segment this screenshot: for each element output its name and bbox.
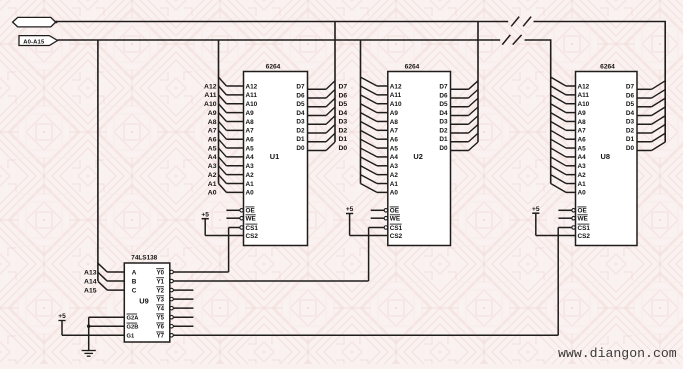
junction: G2B wire to ground rail <box>87 325 90 328</box>
U2 pin WE (active low, stub) <box>371 215 401 223</box>
svg-text:D6: D6 <box>626 92 635 99</box>
U9 pin Y0 wire to U1 CS1 <box>156 269 228 277</box>
svg-text:D5: D5 <box>626 101 635 108</box>
svg-text:A3: A3 <box>390 163 399 170</box>
svg-text:CS2: CS2 <box>246 233 259 240</box>
svg-text:A7: A7 <box>390 128 399 135</box>
U8 address pins A12-A0 with wires to address bus drop <box>551 77 590 197</box>
svg-text:G2A: G2A <box>127 316 140 322</box>
svg-text:D6: D6 <box>439 92 448 99</box>
svg-text:A3: A3 <box>578 163 587 170</box>
svg-text:A0-A15: A0-A15 <box>23 39 45 45</box>
svg-text:A11: A11 <box>246 92 258 99</box>
svg-text:+5: +5 <box>346 206 354 213</box>
svg-text:A9: A9 <box>390 110 399 117</box>
svg-text:A7: A7 <box>578 128 587 135</box>
svg-text:B: B <box>132 278 137 285</box>
svg-text:D1: D1 <box>296 136 305 143</box>
svg-text:D1: D1 <box>339 136 348 143</box>
wire: address bus vertical drop for U8 <box>0 0 1 1</box>
sram U8 (6264): chip body <box>576 64 638 246</box>
svg-text:www.diangon.com: www.diangon.com <box>558 346 677 361</box>
svg-text:A1: A1 <box>578 181 587 188</box>
svg-text:A5: A5 <box>578 145 587 152</box>
svg-text:A11: A11 <box>578 92 590 99</box>
U8 pin OE (active low, stub) <box>558 207 587 215</box>
svg-text:D3: D3 <box>296 119 305 126</box>
U8 pin WE (active low, stub) <box>558 215 588 223</box>
svg-text:Y3: Y3 <box>157 297 165 303</box>
svg-text:U9: U9 <box>139 297 148 306</box>
svg-text:D4: D4 <box>439 110 448 117</box>
svg-text:D6: D6 <box>296 92 305 99</box>
bus entry connector flag "A0-A15" (address bus) <box>19 36 58 46</box>
svg-text:CS1: CS1 <box>578 225 591 232</box>
svg-text:CS2: CS2 <box>578 233 591 240</box>
svg-text:A4: A4 <box>246 154 255 161</box>
wire: data bus vertical drop for U1 <box>334 22 336 142</box>
svg-text:D0: D0 <box>439 145 448 152</box>
svg-text:A8: A8 <box>246 119 255 126</box>
svg-text:A8: A8 <box>578 119 587 126</box>
U2 data pins D7-D0 with wires to data bus drop <box>439 81 478 152</box>
wire: address bus vertical drop for U1 <box>218 40 220 184</box>
svg-text:D2: D2 <box>339 127 348 134</box>
U9 pin Y6 stub <box>156 323 193 331</box>
svg-text:+5: +5 <box>58 313 66 320</box>
U9 pin G2B (active low) tied to ground <box>89 323 139 331</box>
svg-text:D4: D4 <box>339 110 348 117</box>
U9 pin Y4 stub <box>156 305 193 313</box>
svg-text:A2: A2 <box>390 172 399 179</box>
U1 pin WE (active low, stub) <box>226 215 256 223</box>
svg-text:D3: D3 <box>626 119 635 126</box>
svg-text:6264: 6264 <box>266 64 281 71</box>
svg-text:D2: D2 <box>439 127 448 134</box>
svg-text:C: C <box>132 287 137 294</box>
svg-text:A15: A15 <box>84 287 97 294</box>
wire: address bus vertical drop for U9 inputs <box>97 40 99 281</box>
svg-text:Y5: Y5 <box>157 316 165 322</box>
svg-text:A9: A9 <box>578 110 587 117</box>
svg-text:U2: U2 <box>413 152 422 161</box>
svg-text:A5: A5 <box>246 145 255 152</box>
svg-text:A10: A10 <box>390 101 402 108</box>
U8 data pins D7-D0 with wires to data bus drop <box>626 81 665 152</box>
svg-text:Y4: Y4 <box>157 306 165 312</box>
svg-text:A2: A2 <box>208 172 217 179</box>
power +5 symbol for U9 G1 <box>58 313 66 335</box>
svg-text:A6: A6 <box>390 136 399 143</box>
svg-text:D7: D7 <box>439 84 448 91</box>
svg-text:A8: A8 <box>390 119 399 126</box>
U8 pin CS1 wire to decoder output <box>558 224 590 335</box>
svg-text:A6: A6 <box>246 136 255 143</box>
svg-text:D7: D7 <box>339 84 348 91</box>
svg-text:A4: A4 <box>390 154 399 161</box>
power +5 symbol for U8 CS2 <box>532 206 540 213</box>
svg-text:D0: D0 <box>339 145 348 152</box>
svg-text:WE: WE <box>390 216 401 223</box>
ground symbol for U9 enables <box>82 317 96 356</box>
wire: data bus vertical drop for U2 <box>477 22 479 142</box>
U2 pin CS2 wire to +5 <box>350 214 403 240</box>
svg-text:A0: A0 <box>578 190 587 197</box>
U2 pin OE (active low, stub) <box>371 207 400 215</box>
svg-text:A4: A4 <box>208 154 217 161</box>
svg-text:A9: A9 <box>246 110 255 117</box>
svg-text:Y1: Y1 <box>157 279 165 285</box>
svg-text:A4: A4 <box>578 154 587 161</box>
svg-text:U1: U1 <box>270 152 279 161</box>
svg-text:A7: A7 <box>246 128 255 135</box>
bus entry connector (data bus, empty hexagon) <box>13 17 58 27</box>
svg-text:D7: D7 <box>626 84 635 91</box>
wire: address bus vertical drop for U2 <box>360 40 362 184</box>
svg-text:D0: D0 <box>626 145 635 152</box>
svg-text:6264: 6264 <box>600 64 615 71</box>
bus break marks on address bus <box>502 35 521 45</box>
svg-text:A12: A12 <box>578 83 590 90</box>
svg-text:A10: A10 <box>246 101 258 108</box>
svg-text:Y6: Y6 <box>157 325 165 331</box>
svg-text:A14: A14 <box>84 278 97 285</box>
U2 address pins A12-A0 with wires to address bus drop <box>361 77 402 197</box>
U2 pin CS1 wire to decoder output <box>369 224 403 281</box>
svg-text:WE: WE <box>578 216 589 223</box>
svg-text:A5: A5 <box>390 145 399 152</box>
wire: address bus horizontal (right span) with corner down to U8 address drop <box>525 40 551 184</box>
wire: data bus vertical drop for U8 <box>0 0 1 1</box>
svg-text:A12: A12 <box>204 83 217 90</box>
svg-text:U8: U8 <box>601 152 610 161</box>
svg-text:D3: D3 <box>339 119 348 126</box>
U1 pin OE (active low, stub) <box>226 207 255 215</box>
power +5 symbol for U2 CS2 <box>346 206 354 213</box>
U8 pin CS2 wire to +5 <box>536 213 591 240</box>
svg-text:A0: A0 <box>390 190 399 197</box>
U9 pin Y7 wire to U8 CS1 <box>156 332 558 340</box>
svg-text:A1: A1 <box>390 181 399 188</box>
svg-text:D5: D5 <box>439 101 448 108</box>
U9 pin Y2 stub <box>156 287 193 295</box>
svg-text:OE: OE <box>390 208 400 215</box>
svg-text:A13: A13 <box>84 269 97 276</box>
svg-text:A3: A3 <box>246 163 255 170</box>
svg-text:A11: A11 <box>204 92 216 99</box>
svg-text:A2: A2 <box>246 172 255 179</box>
svg-text:A5: A5 <box>208 145 217 152</box>
svg-text:+5: +5 <box>532 206 540 213</box>
U1 address pins A12-A0 with wires to address bus drop <box>204 77 258 197</box>
svg-text:A8: A8 <box>208 119 217 126</box>
U9 pin G1 tied to +5 <box>62 334 135 340</box>
svg-text:Y2: Y2 <box>157 288 165 294</box>
watermark www.diangon.com <box>558 346 677 361</box>
svg-text:D4: D4 <box>296 110 305 117</box>
svg-text:D2: D2 <box>296 127 305 134</box>
svg-text:A0: A0 <box>208 190 217 197</box>
svg-text:D7: D7 <box>296 84 305 91</box>
sram U1 (6264): chip body <box>244 64 308 246</box>
U1 pin CS2 wire to +5 <box>205 219 258 240</box>
svg-text:A9: A9 <box>208 110 217 117</box>
svg-text:OE: OE <box>246 208 256 215</box>
svg-text:CS1: CS1 <box>246 225 259 232</box>
power +5 symbol for U1 CS2 <box>201 211 209 218</box>
U1 pin CS1 wire to decoder output <box>229 224 259 272</box>
svg-text:D5: D5 <box>296 101 305 108</box>
svg-text:A: A <box>132 269 137 276</box>
svg-text:CS1: CS1 <box>390 225 403 232</box>
svg-text:A3: A3 <box>208 163 217 170</box>
svg-text:A2: A2 <box>578 172 587 179</box>
svg-text:D5: D5 <box>339 101 348 108</box>
svg-text:+5: +5 <box>201 211 209 218</box>
svg-text:D4: D4 <box>626 110 635 117</box>
svg-text:A0: A0 <box>246 190 255 197</box>
bus break marks on data bus <box>511 17 531 27</box>
wire: data bus horizontal (right span) with corner down to U8 data drop <box>534 22 666 143</box>
svg-text:6264: 6264 <box>405 64 420 71</box>
U9 pin G2A (active low) tied to ground <box>89 314 140 322</box>
svg-text:D1: D1 <box>439 136 448 143</box>
wire: address bus horizontal (left span) <box>58 39 501 41</box>
svg-text:G1: G1 <box>127 334 136 340</box>
svg-text:Y0: Y0 <box>157 270 165 276</box>
svg-text:WE: WE <box>246 216 257 223</box>
U1 data pins D7-D0 with wires to data bus drop <box>296 81 347 152</box>
svg-text:D3: D3 <box>439 119 448 126</box>
svg-text:D2: D2 <box>626 127 635 134</box>
svg-text:A12: A12 <box>246 83 258 90</box>
svg-text:G2B: G2B <box>127 325 139 331</box>
svg-text:A10: A10 <box>578 101 590 108</box>
U9 pin Y3 stub <box>156 296 193 304</box>
svg-text:Y7: Y7 <box>157 334 165 340</box>
sram U2 (6264): chip body <box>388 64 451 246</box>
svg-text:74LS138: 74LS138 <box>131 255 157 262</box>
svg-text:A11: A11 <box>390 92 402 99</box>
U9 select inputs A B C from address lines A13 A14 A15 <box>84 263 137 294</box>
svg-text:A7: A7 <box>208 128 217 135</box>
svg-text:OE: OE <box>578 208 588 215</box>
svg-text:A1: A1 <box>246 181 255 188</box>
svg-text:A6: A6 <box>578 136 587 143</box>
svg-text:A1: A1 <box>208 181 217 188</box>
U9 pin Y1 wire to U2 CS1 <box>156 278 368 286</box>
svg-text:A10: A10 <box>204 101 217 108</box>
svg-text:CS2: CS2 <box>390 233 403 240</box>
svg-text:D1: D1 <box>626 136 635 143</box>
svg-text:A12: A12 <box>390 83 402 90</box>
svg-text:D0: D0 <box>296 145 305 152</box>
U9 pin Y5 stub <box>156 314 193 322</box>
decoder U9 (74LS138): chip body <box>124 255 170 342</box>
wire: data bus horizontal (left span) <box>56 21 509 23</box>
svg-text:A6: A6 <box>208 136 217 143</box>
svg-text:D6: D6 <box>339 92 348 99</box>
